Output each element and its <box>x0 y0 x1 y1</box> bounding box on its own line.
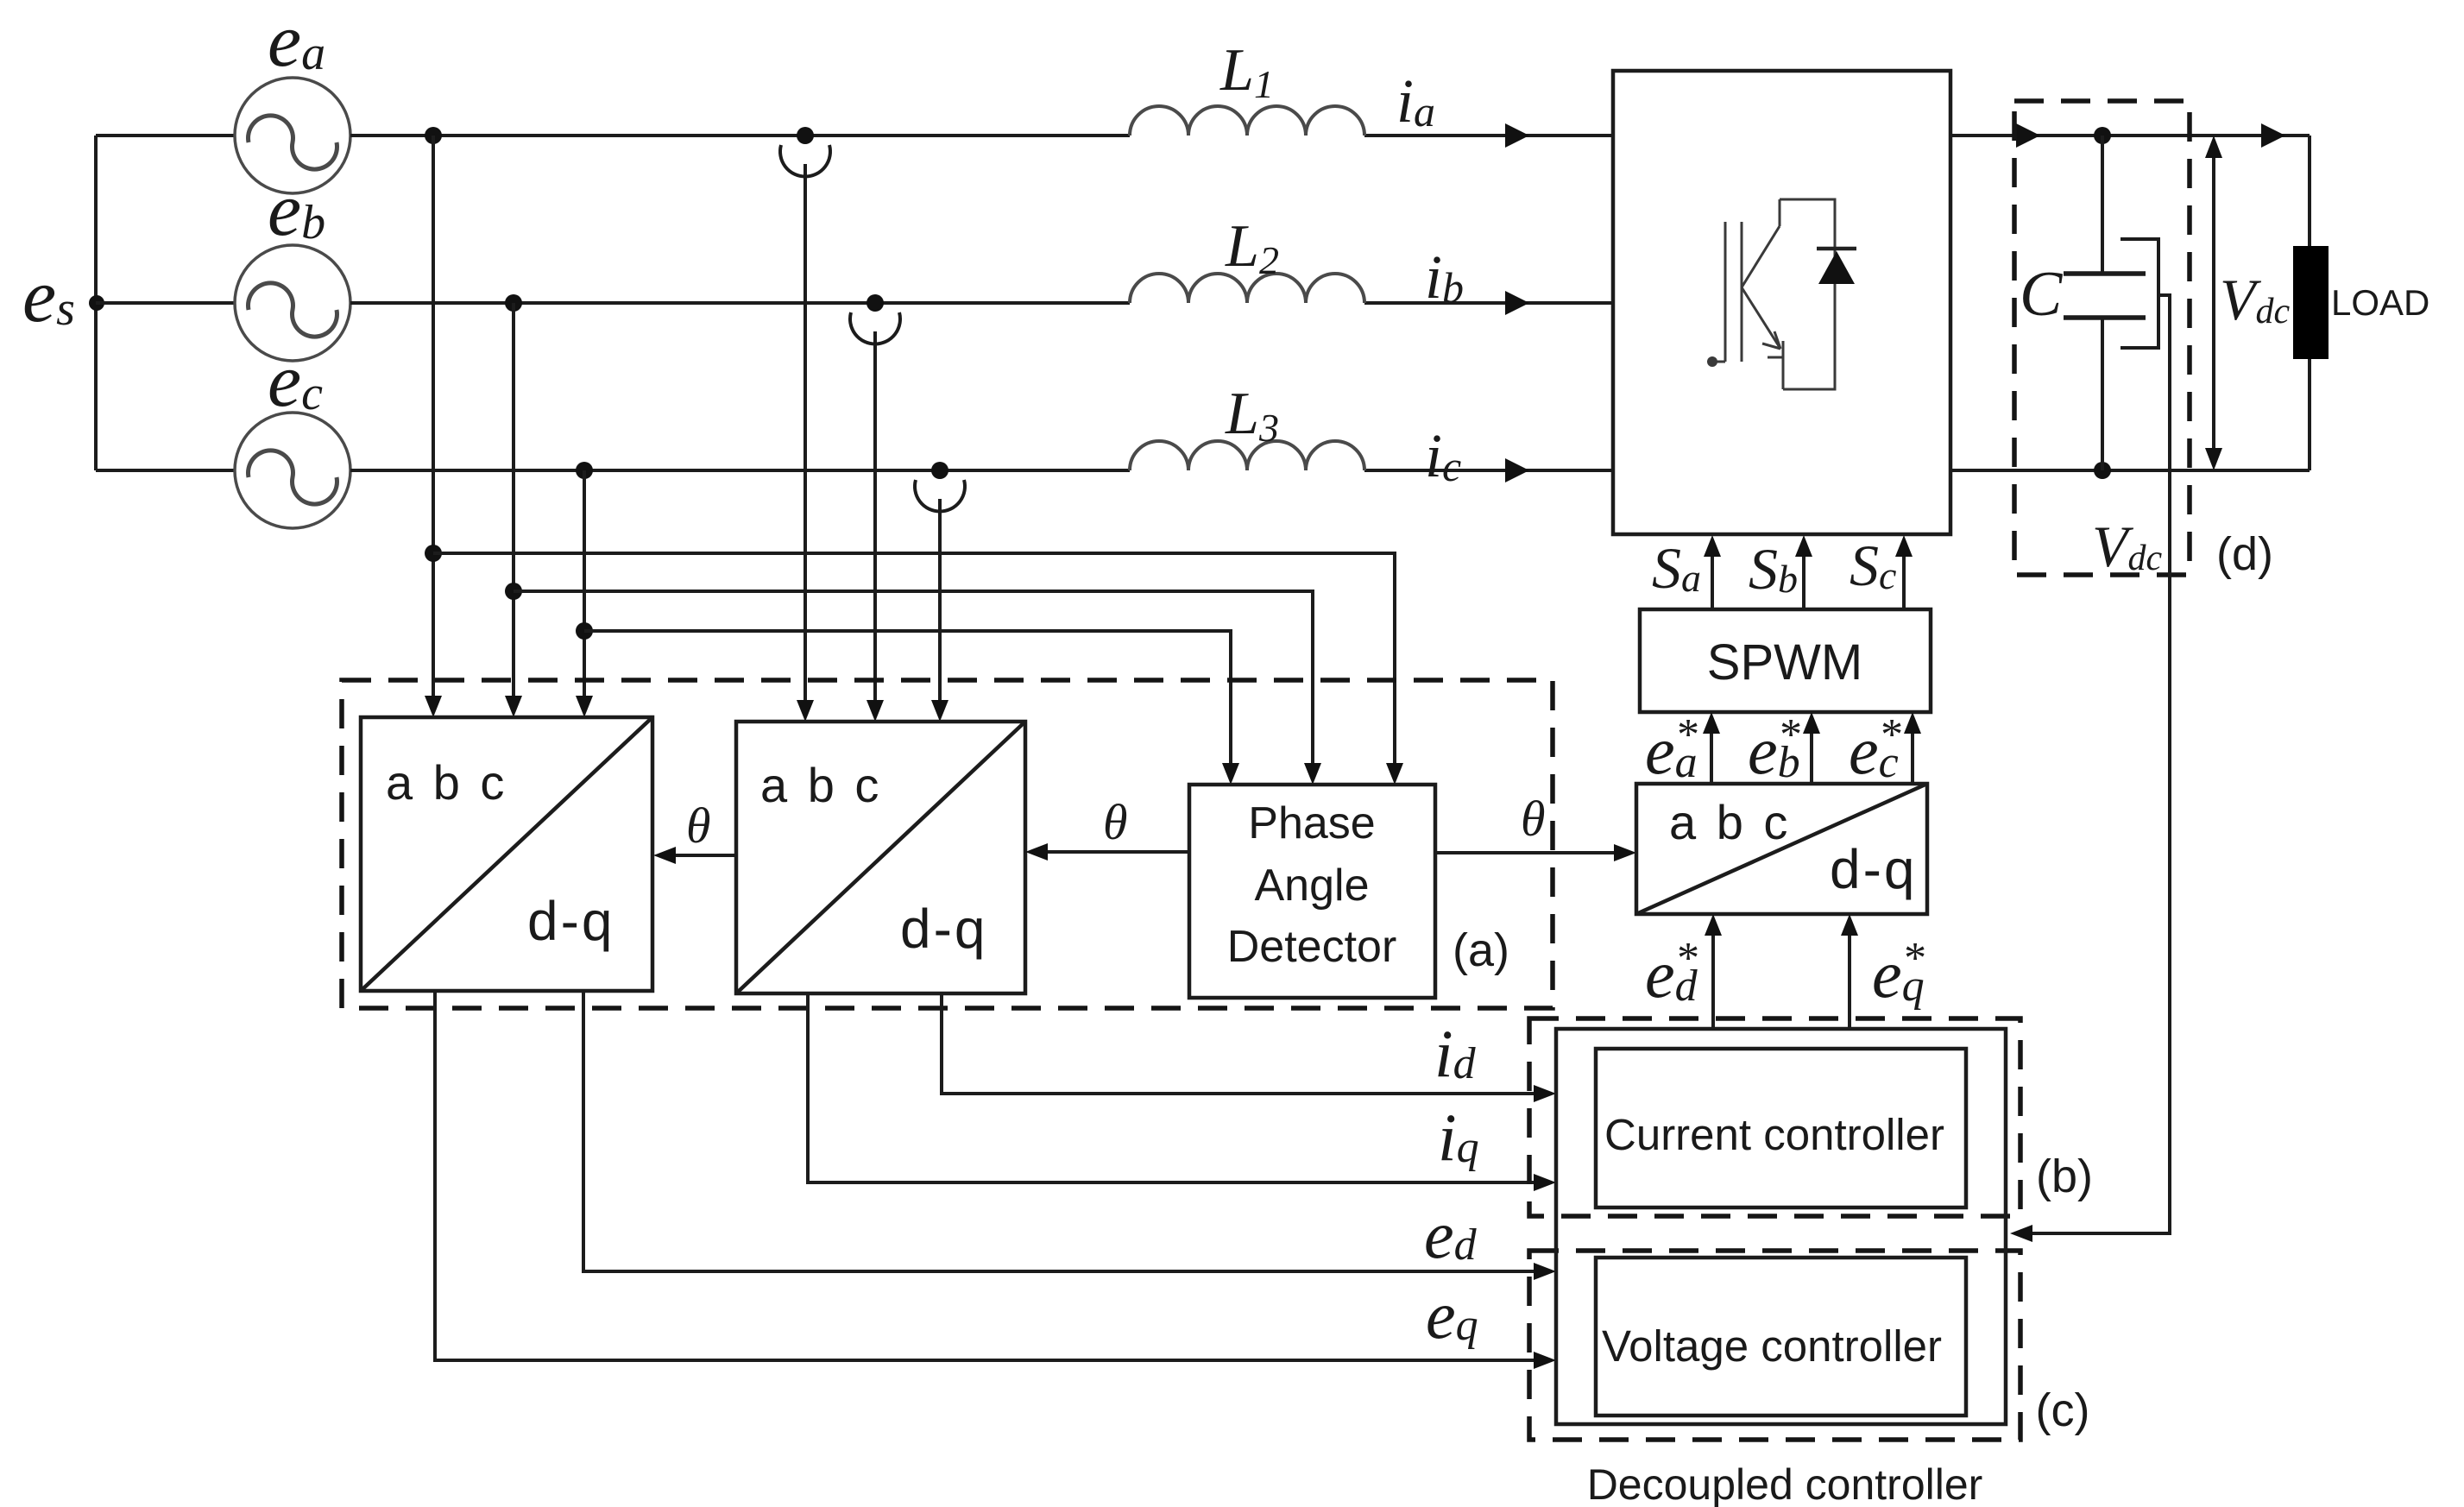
wire ed ref <box>1705 914 1722 1029</box>
phase angle detector U4 <box>1189 785 1435 998</box>
svg-text:e*d: e*d <box>1645 934 1698 1012</box>
abc to dq transform U3 (current) <box>736 722 1025 993</box>
current sensor ia <box>780 127 830 722</box>
wire phase A left <box>96 134 235 137</box>
wire ec ref <box>1904 712 1921 784</box>
wire phase B left <box>96 301 235 305</box>
wire id <box>942 993 1556 1102</box>
svg-text:a b c: a b c <box>386 755 507 810</box>
abc to dq transform U5 (reference) <box>1636 784 1927 914</box>
wire phase A to converter <box>350 123 1613 148</box>
wire ea sense vertical <box>425 127 442 717</box>
voltage source ec <box>235 413 350 528</box>
svg-text:(b): (b) <box>2036 1151 2093 1202</box>
node es dot <box>89 295 104 311</box>
voltage source eb <box>235 245 350 361</box>
svg-text:C: C <box>2020 259 2064 330</box>
svg-text:d-q: d-q <box>527 890 615 952</box>
svg-text:θ: θ <box>1103 794 1128 850</box>
wire theta detector to U5 <box>1435 844 1636 861</box>
wire eq <box>435 991 1556 1369</box>
svg-text:(a): (a) <box>1453 924 1509 976</box>
wire ea sense to detector <box>425 545 1403 785</box>
svg-text:e*q: e*q <box>1872 934 1925 1012</box>
dashed region (d) <box>2014 101 2190 575</box>
svg-text:(d): (d) <box>2216 528 2273 580</box>
decoupled controller outer box <box>1556 1029 2006 1424</box>
svg-text:e*c: e*c <box>1849 710 1901 788</box>
wire eb sense vertical <box>505 294 522 717</box>
svg-text:Voltage controller: Voltage controller <box>1602 1321 1942 1371</box>
wire eb ref <box>1803 712 1820 784</box>
svg-text:θ: θ <box>686 798 711 854</box>
dashed region (c) <box>1529 1251 2020 1440</box>
Vdc sense bracket <box>2121 239 2158 348</box>
wire Vdc feedback <box>2010 295 2170 1242</box>
inductor L1 <box>1130 106 1364 136</box>
voltage source ea <box>235 78 350 193</box>
voltage controller U8 <box>1596 1258 1966 1416</box>
load RL <box>2293 246 2329 359</box>
SPWM block U6 <box>1640 609 1931 712</box>
svg-text:Phase: Phase <box>1248 798 1375 848</box>
wire theta detector to U3 <box>1025 843 1189 861</box>
wire eq ref <box>1841 914 1858 1029</box>
svg-text:a b c: a b c <box>1669 795 1791 849</box>
wire Sb <box>1795 535 1812 609</box>
svg-text:e*b: e*b <box>1748 710 1800 788</box>
dashed region (a) <box>342 680 1553 1008</box>
svg-text:LOAD: LOAD <box>2331 282 2429 323</box>
current controller U7 <box>1596 1049 1966 1207</box>
svg-text:SPWM: SPWM <box>1707 634 1862 690</box>
svg-text:e*a: e*a <box>1645 710 1698 788</box>
transistor Q1 IGBT <box>1707 199 1835 389</box>
capacitor C <box>2064 136 2146 470</box>
wire iq <box>808 993 1556 1191</box>
converter U1 box <box>1613 71 1950 534</box>
svg-text:Current controller: Current controller <box>1604 1110 1944 1159</box>
wire ec sense to detector <box>576 622 1239 785</box>
node es bus wire <box>94 136 98 470</box>
wire ea ref <box>1703 712 1720 784</box>
svg-text:d-q: d-q <box>900 898 988 960</box>
svg-text:(c): (c) <box>2036 1384 2090 1436</box>
diode D1 <box>1817 249 1856 284</box>
inductor L2 <box>1130 274 1364 303</box>
wire dc bottom rail <box>1950 462 2310 479</box>
wire phase C left <box>96 469 235 472</box>
wire Sc <box>1895 535 1913 609</box>
svg-text:Angle: Angle <box>1255 861 1370 911</box>
svg-text:Decoupled controller: Decoupled controller <box>1587 1460 1983 1507</box>
inductor L3 <box>1130 441 1364 470</box>
current sensor ic <box>915 462 965 722</box>
abc to dq transform U2 (voltage) <box>361 717 652 991</box>
Vdc measurement arrow <box>2205 136 2222 470</box>
wire Sa <box>1704 535 1721 609</box>
wire ec sense vertical <box>576 462 593 717</box>
wire load branch <box>2308 136 2311 470</box>
wire phase C to converter <box>350 458 1613 482</box>
svg-text:θ: θ <box>1521 791 1546 847</box>
dashed region (b) <box>1529 1018 2020 1216</box>
svg-text:Detector: Detector <box>1227 922 1397 972</box>
svg-text:d-q: d-q <box>1830 838 1918 900</box>
current sensor ib <box>850 294 900 722</box>
wire dc top rail <box>1950 123 2310 148</box>
svg-text:a b c: a b c <box>760 758 882 812</box>
wire theta U3 to U2 <box>653 847 736 864</box>
wire eb sense to detector <box>505 583 1321 785</box>
wire phase B to converter <box>350 291 1613 315</box>
wire ed <box>583 991 1556 1280</box>
